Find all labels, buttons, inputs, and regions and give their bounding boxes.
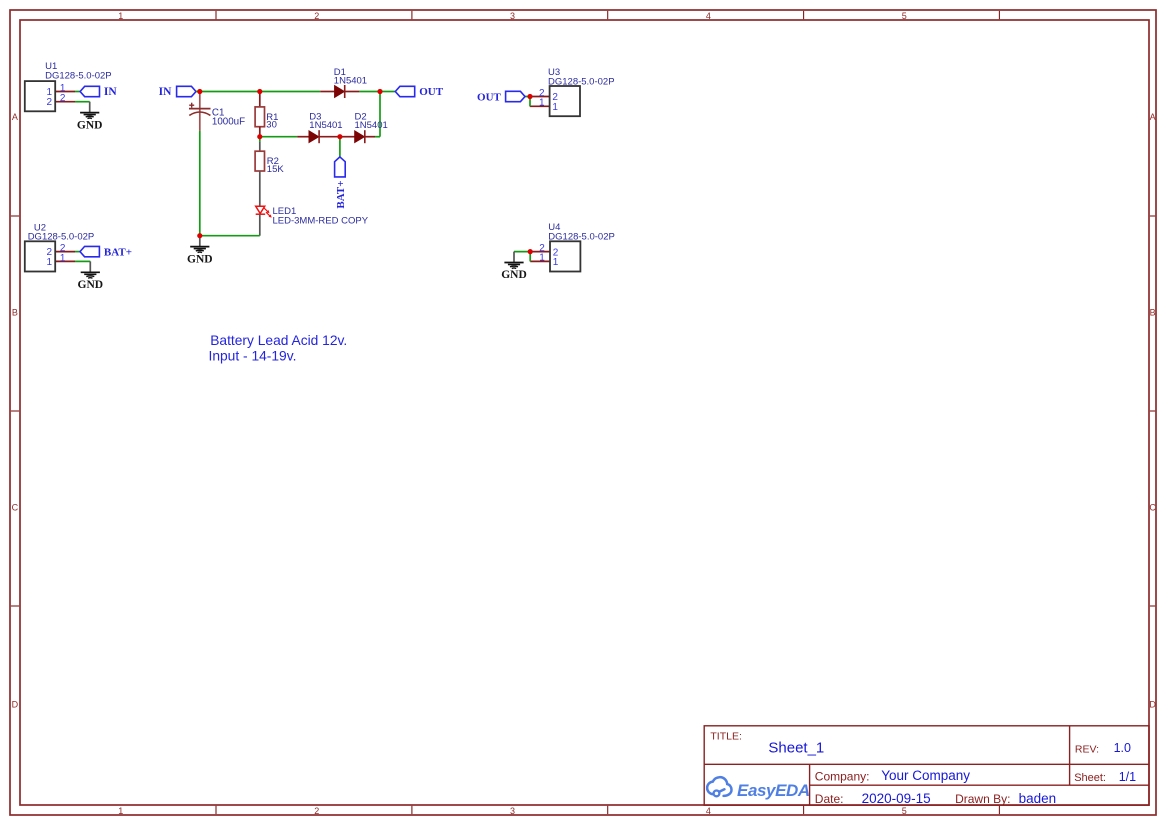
- svg-text:Sheet:: Sheet:: [1074, 772, 1106, 784]
- svg-text:Drawn By:: Drawn By:: [955, 792, 1010, 806]
- svg-text:2: 2: [314, 806, 319, 816]
- svg-text:A: A: [12, 112, 18, 122]
- svg-text:1: 1: [539, 98, 545, 109]
- svg-text:Input - 14-19v.: Input - 14-19v.: [209, 348, 297, 363]
- svg-text:DG128-5.0-02P: DG128-5.0-02P: [45, 70, 112, 81]
- svg-text:Battery Lead Acid 12v.: Battery Lead Acid 12v.: [210, 333, 347, 348]
- svg-text:GND: GND: [77, 119, 103, 131]
- svg-text:1: 1: [60, 253, 66, 264]
- svg-text:2020-09-15: 2020-09-15: [862, 791, 931, 806]
- svg-text:Sheet_1: Sheet_1: [768, 740, 824, 757]
- svg-text:BAT+: BAT+: [104, 246, 132, 258]
- svg-text:IN: IN: [159, 86, 172, 98]
- svg-text:IN: IN: [104, 86, 117, 98]
- svg-text:REV:: REV:: [1075, 743, 1099, 755]
- svg-text:30: 30: [266, 120, 277, 131]
- svg-text:1/1: 1/1: [1119, 770, 1136, 784]
- svg-text:1: 1: [539, 253, 545, 264]
- svg-text:GND: GND: [501, 269, 527, 281]
- svg-text:1: 1: [118, 806, 123, 816]
- svg-text:Your Company: Your Company: [881, 768, 970, 783]
- svg-text:1N5401: 1N5401: [355, 120, 388, 131]
- svg-text:1: 1: [118, 11, 123, 21]
- svg-text:GND: GND: [78, 279, 104, 291]
- svg-text:DG128-5.0-02P: DG128-5.0-02P: [548, 76, 615, 87]
- svg-text:Company:: Company:: [815, 770, 870, 784]
- svg-text:3: 3: [510, 11, 515, 21]
- svg-text:B: B: [1150, 308, 1156, 318]
- svg-text:baden: baden: [1019, 791, 1057, 806]
- svg-text:GND: GND: [187, 253, 213, 265]
- svg-text:5: 5: [902, 11, 907, 21]
- svg-text:OUT: OUT: [477, 91, 502, 103]
- svg-text:5: 5: [902, 806, 907, 816]
- svg-text:Date:: Date:: [815, 792, 844, 806]
- svg-text:TITLE:: TITLE:: [710, 730, 742, 742]
- svg-text:D: D: [1149, 700, 1156, 710]
- svg-text:C: C: [12, 503, 19, 513]
- svg-text:DG128-5.0-02P: DG128-5.0-02P: [28, 232, 95, 243]
- svg-text:2: 2: [60, 93, 66, 104]
- svg-text:2: 2: [314, 11, 319, 21]
- svg-text:EasyEDA: EasyEDA: [737, 781, 810, 800]
- svg-text:4: 4: [706, 11, 711, 21]
- svg-text:15K: 15K: [267, 164, 285, 175]
- svg-text:1.0: 1.0: [1114, 741, 1131, 755]
- svg-text:1000uF: 1000uF: [212, 117, 245, 128]
- svg-text:C: C: [1149, 503, 1156, 513]
- svg-text:LED-3MM-RED COPY: LED-3MM-RED COPY: [273, 215, 369, 226]
- svg-text:1N5401: 1N5401: [309, 120, 342, 131]
- svg-text:2: 2: [46, 97, 52, 108]
- svg-text:D: D: [12, 700, 19, 710]
- svg-text:1: 1: [553, 257, 559, 268]
- svg-text:A: A: [1150, 112, 1156, 122]
- svg-text:DG128-5.0-02P: DG128-5.0-02P: [548, 232, 615, 243]
- svg-text:1: 1: [552, 102, 558, 113]
- svg-text:3: 3: [510, 806, 515, 816]
- svg-text:OUT: OUT: [419, 86, 444, 98]
- svg-text:4: 4: [706, 806, 711, 816]
- svg-text:B: B: [12, 308, 18, 318]
- svg-text:1: 1: [46, 257, 52, 268]
- svg-text:1N5401: 1N5401: [334, 76, 367, 87]
- svg-text:BAT+: BAT+: [335, 181, 347, 209]
